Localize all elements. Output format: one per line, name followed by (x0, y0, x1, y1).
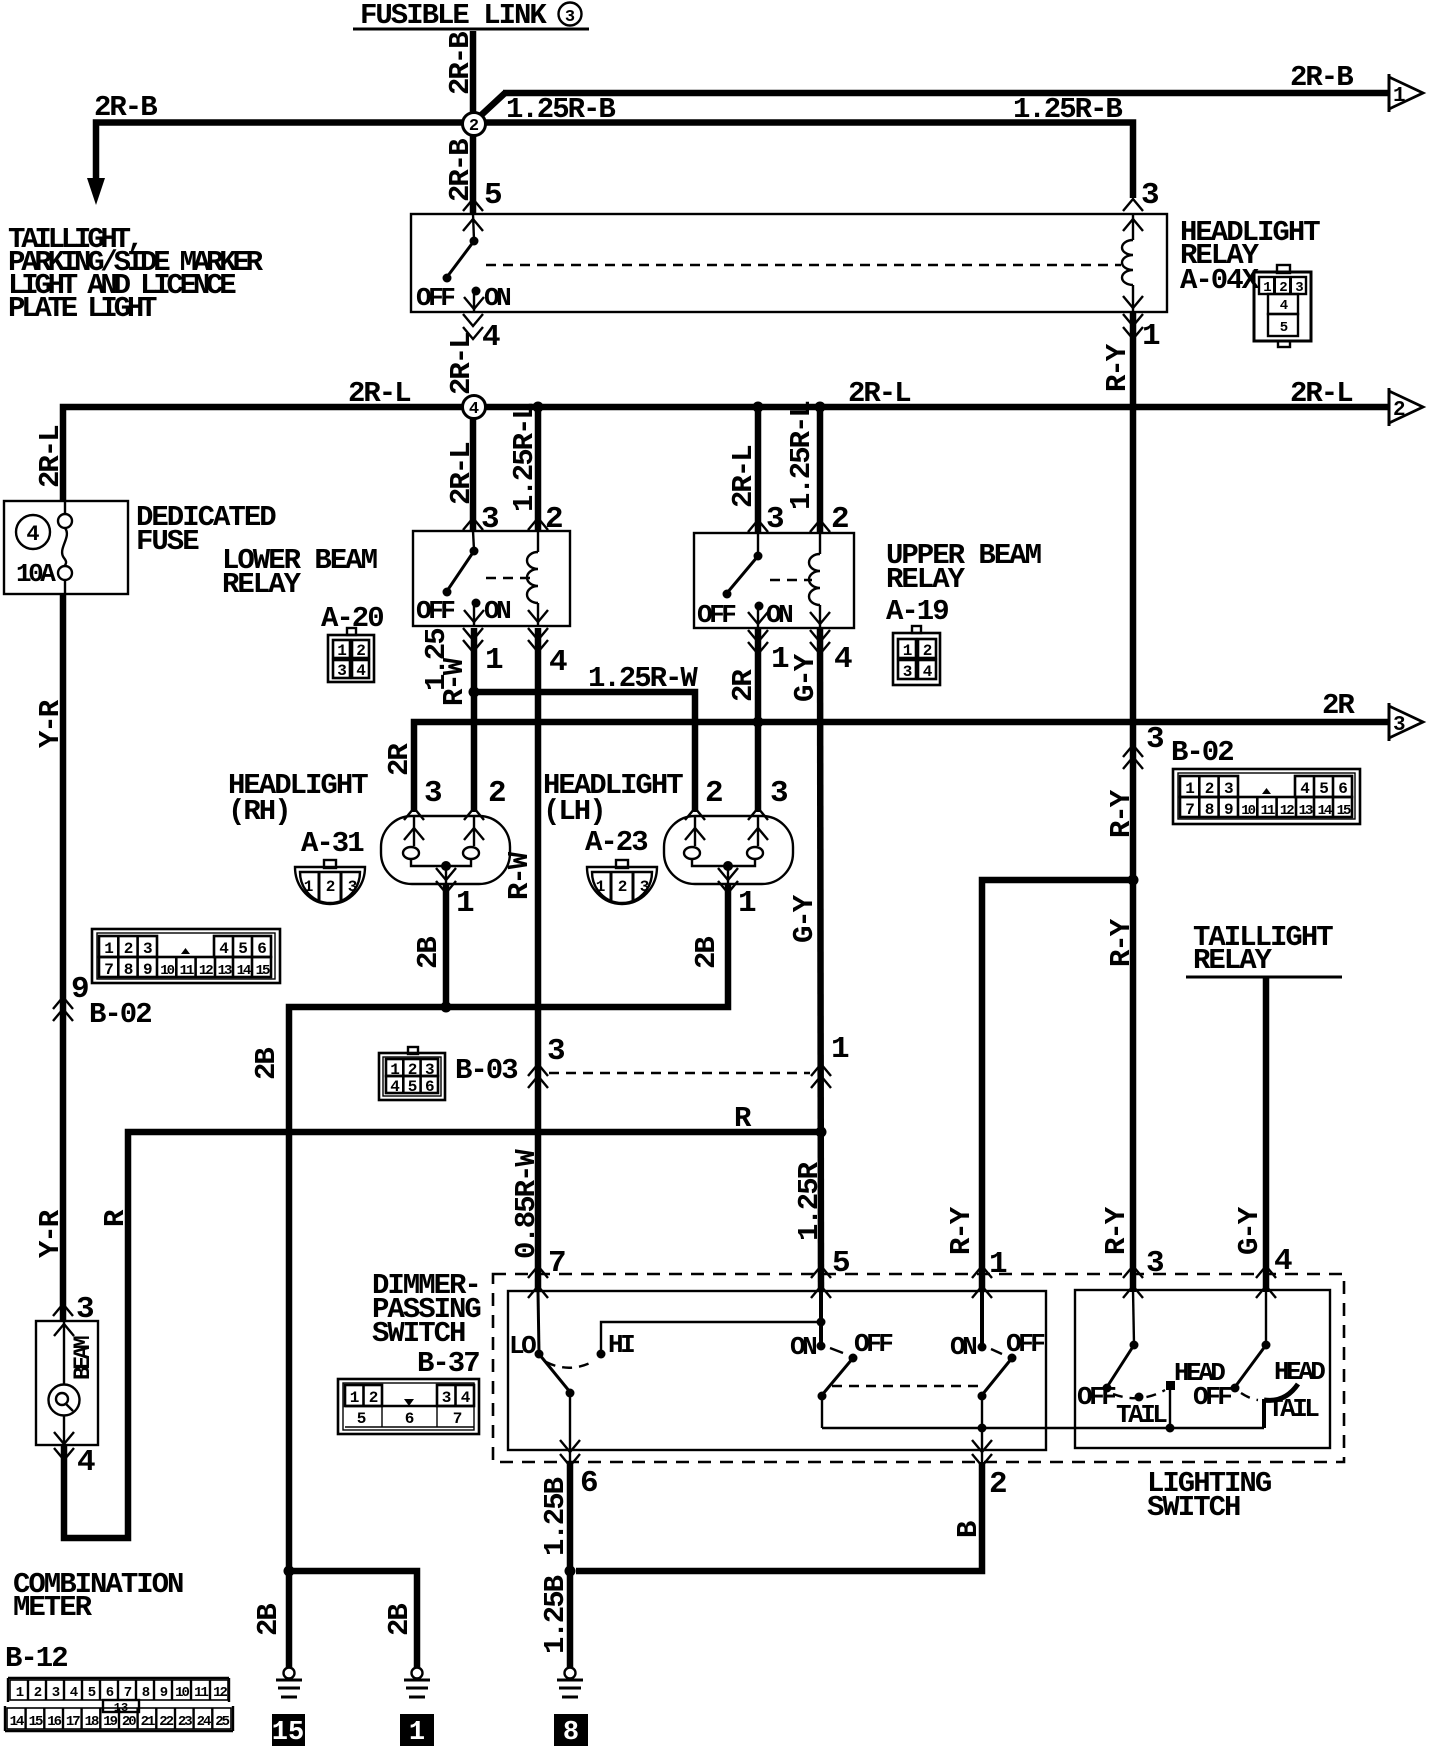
svg-text:10: 10 (160, 963, 174, 979)
svg-text:3: 3 (425, 1061, 434, 1079)
node pin 3 lighting switch (1123, 1246, 1164, 1298)
svg-text:1.25R-L: 1.25R-L (785, 402, 818, 510)
wire R-Y branch to dimmer pin 1 (945, 875, 1139, 1293)
svg-text:4: 4 (219, 940, 229, 958)
svg-text:3: 3 (766, 502, 784, 537)
svg-text:23: 23 (178, 1714, 192, 1730)
coil lower beam relay (527, 531, 548, 626)
node 2 junction (463, 113, 486, 137)
svg-text:15: 15 (256, 963, 270, 979)
svg-text:8: 8 (124, 961, 133, 979)
svg-text:5: 5 (408, 1078, 417, 1096)
svg-text:1.25R-B: 1.25R-B (1013, 93, 1122, 126)
svg-text:R: R (99, 1209, 132, 1227)
svg-text:OFF: OFF (1077, 1382, 1116, 1412)
svg-text:4: 4 (26, 522, 39, 547)
svg-text:2R-B: 2R-B (94, 91, 157, 124)
svg-text:2B: 2B (250, 1048, 283, 1080)
ground symbol 1 (400, 1668, 434, 1749)
svg-text:3: 3 (337, 662, 346, 680)
svg-text:R-Y: R-Y (1105, 918, 1138, 967)
svg-text:14: 14 (10, 1714, 24, 1730)
svg-text:2R-L: 2R-L (848, 377, 910, 410)
svg-text:R-W: R-W (503, 851, 536, 900)
svg-text:B-12: B-12 (5, 1642, 67, 1675)
switch box dashed outer (493, 1274, 1344, 1462)
svg-text:1: 1 (738, 886, 756, 921)
svg-text:4: 4 (469, 400, 479, 419)
svg-text:3: 3 (640, 878, 649, 896)
ground symbol 8 (554, 1668, 588, 1749)
svg-text:3: 3 (547, 1034, 565, 1069)
node B-03 inline connector pin 3 (528, 1034, 565, 1088)
svg-text:2: 2 (408, 1061, 417, 1079)
svg-text:3: 3 (143, 940, 152, 958)
node FUSIBLE LINK label (353, 0, 589, 32)
node pin 1 headlight relay (1123, 314, 1160, 354)
svg-text:7: 7 (104, 961, 113, 979)
node COMBINATION METER label (5, 1568, 183, 1675)
wire 2R-B fusible link to node 2 (444, 31, 477, 113)
svg-text:R-Y: R-Y (1101, 343, 1134, 392)
svg-text:HEAD: HEAD (1274, 1357, 1325, 1387)
svg-text:4: 4 (356, 662, 366, 680)
svg-text:9: 9 (1224, 801, 1233, 819)
switch main ON-OFF (950, 1291, 1045, 1428)
svg-text:2: 2 (356, 642, 365, 660)
svg-text:B: B (952, 1521, 985, 1538)
svg-text:SWITCH: SWITCH (372, 1317, 465, 1350)
node DIMMER-PASSING SWITCH label (372, 1269, 480, 1380)
svg-text:5: 5 (832, 1246, 849, 1281)
svg-text:12: 12 (213, 1685, 227, 1701)
svg-text:11: 11 (1261, 803, 1275, 819)
svg-text:4: 4 (461, 1389, 471, 1407)
svg-text:1.25R-W: 1.25R-W (588, 662, 698, 695)
svg-text:2R-L: 2R-L (34, 426, 67, 488)
connector icon B-02 right (1173, 769, 1360, 824)
wire R-W relay pin4 down through B-03 to dimmer pin 7 (503, 628, 543, 1292)
svg-text:PLATE LIGHT: PLATE LIGHT (8, 292, 157, 325)
wire 2R upper relay pin 1 to arrow 3 (383, 669, 1392, 812)
svg-text:4: 4 (77, 1445, 95, 1480)
svg-text:17: 17 (66, 1714, 80, 1730)
svg-text:7: 7 (1185, 801, 1194, 819)
svg-text:A-31: A-31 (301, 827, 364, 860)
svg-text:1: 1 (1142, 319, 1160, 354)
svg-text:8: 8 (563, 1718, 579, 1748)
switch dimmer LO-HI (509, 1291, 821, 1464)
node pin 3 lower relay (463, 502, 499, 537)
node UPPER BEAM RELAY label (886, 539, 1041, 628)
svg-text:ON: ON (484, 596, 510, 626)
node pin 2 lower relay (528, 502, 562, 537)
svg-text:6: 6 (405, 1410, 414, 1428)
svg-text:20: 20 (122, 1714, 136, 1730)
svg-text:13: 13 (1299, 803, 1313, 819)
svg-text:2R-B: 2R-B (444, 32, 477, 95)
wire G-Y taillight relay to lighting switch pin 4 (1233, 977, 1266, 1292)
svg-text:A-20: A-20 (321, 602, 383, 635)
svg-text:15: 15 (1337, 803, 1351, 819)
node pin 2 RH headlight (464, 776, 505, 840)
node pin 6 dimmer (560, 1440, 597, 1501)
svg-text:24: 24 (197, 1714, 211, 1730)
svg-text:1: 1 (1185, 780, 1194, 798)
svg-text:B-03: B-03 (455, 1054, 517, 1087)
svg-text:METER: METER (13, 1591, 93, 1624)
svg-text:4: 4 (923, 663, 933, 681)
wire 2B RH headlight to ground (412, 884, 452, 1013)
node pin 1 upper relay (748, 630, 789, 677)
svg-text:13: 13 (218, 963, 232, 979)
connector icon A-23 (587, 860, 657, 904)
svg-text:1: 1 (337, 642, 346, 660)
node pin 3 LH headlight (748, 776, 788, 840)
svg-text:FUSIBLE LINK: FUSIBLE LINK (360, 0, 547, 32)
node pin 3 RH headlight (404, 776, 442, 840)
svg-text:1.25R-L: 1.25R-L (508, 404, 541, 512)
wire common output dimmer to lighting switch (822, 1399, 1264, 1464)
svg-text:1: 1 (485, 643, 503, 678)
svg-text:B-37: B-37 (417, 1347, 479, 1380)
svg-text:ON: ON (766, 600, 792, 630)
wire 2R-L node 4 to arrow 2 (485, 377, 1392, 410)
node pin 4 lower relay (528, 628, 567, 680)
svg-text:5: 5 (357, 1410, 366, 1428)
svg-text:4: 4 (1300, 780, 1310, 798)
svg-text:B-02: B-02 (1171, 736, 1233, 769)
wire R-W lower relay pin1 to RH headlight pin 2 (469, 628, 480, 812)
svg-text:ON: ON (950, 1332, 976, 1362)
svg-text:19: 19 (103, 1714, 117, 1730)
svg-text:1: 1 (831, 1032, 849, 1067)
svg-text:21: 21 (141, 1714, 155, 1730)
svg-text:2R-L: 2R-L (727, 446, 760, 508)
svg-text:7: 7 (453, 1410, 462, 1428)
node arrow 3 (1389, 703, 1423, 741)
svg-text:A-04X: A-04X (1180, 264, 1260, 297)
svg-text:OFF: OFF (1193, 1382, 1232, 1412)
svg-text:2R-B: 2R-B (1290, 61, 1353, 94)
connector icon B-02 left (92, 929, 280, 983)
svg-text:3: 3 (424, 776, 442, 811)
svg-text:(RH): (RH) (228, 795, 290, 828)
svg-text:1: 1 (456, 886, 474, 921)
switch lighting pole 2 (1193, 1290, 1325, 1424)
component DEDICATED FUSE (4, 501, 276, 594)
svg-text:2: 2 (705, 776, 722, 811)
wire 2B LH headlight to ground junction (250, 884, 728, 1571)
connector icon A-20 (328, 628, 374, 682)
svg-text:4: 4 (834, 642, 852, 677)
svg-text:2: 2 (369, 1389, 378, 1407)
svg-text:R-Y: R-Y (945, 1206, 978, 1255)
svg-text:Y-R: Y-R (34, 1209, 67, 1258)
node 4 junction (463, 396, 486, 420)
node pin 4 upper relay (810, 630, 852, 677)
svg-text:25: 25 (215, 1714, 229, 1730)
svg-text:15: 15 (29, 1714, 43, 1730)
svg-text:1: 1 (409, 1718, 425, 1748)
svg-text:1: 1 (350, 1389, 359, 1407)
svg-text:3: 3 (770, 776, 788, 811)
svg-text:FUSE: FUSE (136, 525, 199, 558)
svg-text:22: 22 (159, 1714, 173, 1730)
svg-text:2: 2 (326, 878, 335, 896)
wire 2R upper relay pin1 down to LH pin 3 (755, 628, 762, 812)
svg-text:3: 3 (1146, 1246, 1164, 1281)
svg-text:0.85R-W: 0.85R-W (510, 1149, 543, 1259)
svg-text:5: 5 (484, 178, 501, 213)
svg-text:G-Y: G-Y (788, 894, 821, 943)
svg-text:1: 1 (1393, 85, 1406, 108)
connector icon A-19 (893, 626, 940, 685)
svg-text:2: 2 (124, 940, 133, 958)
wire 1.25R-L to upper beam relay pin 2 (785, 402, 826, 533)
relay box lower beam relay (413, 531, 570, 626)
wire 1.25R-L to lower beam relay pin 2 (508, 402, 544, 531)
switch dimmer passing ON-OFF (790, 1291, 893, 1428)
svg-text:2R-L: 2R-L (348, 377, 410, 410)
connector icon B-12 (5, 1678, 233, 1731)
node pin 3 beam indicator (53, 1292, 94, 1336)
node LOWER BEAM RELAY label (222, 544, 383, 635)
svg-text:(LH): (LH) (543, 795, 605, 828)
svg-text:SWITCH: SWITCH (1147, 1491, 1240, 1524)
svg-text:15: 15 (272, 1718, 304, 1748)
svg-text:A-19: A-19 (886, 595, 948, 628)
svg-text:11: 11 (194, 1685, 208, 1701)
ground symbol 15 (272, 1668, 305, 1749)
svg-text:10: 10 (175, 1685, 189, 1701)
svg-text:8: 8 (1205, 801, 1214, 819)
svg-text:4: 4 (1274, 1244, 1292, 1279)
wire dashed B-03 link (549, 1072, 810, 1074)
svg-text:2: 2 (618, 878, 627, 896)
svg-text:HI: HI (608, 1330, 634, 1360)
node arrow 1 (1389, 74, 1423, 112)
svg-text:7: 7 (548, 1246, 565, 1281)
svg-text:5: 5 (238, 940, 247, 958)
wire 2R-L node 4 to dedicated fuse (34, 377, 463, 501)
wire 2R-B node 2 to arrow 1 (477, 61, 1392, 126)
node pin 5 headlight relay (463, 178, 501, 231)
wire 1.25R-W label columns (420, 629, 471, 706)
svg-text:2: 2 (1393, 399, 1406, 422)
svg-text:2B: 2B (383, 1604, 416, 1636)
svg-text:10: 10 (1241, 803, 1255, 819)
wire dashed gang link dimmer (832, 1385, 978, 1387)
svg-text:OFF: OFF (416, 283, 455, 313)
svg-text:6: 6 (425, 1078, 434, 1096)
svg-text:4: 4 (549, 645, 567, 680)
svg-text:2R-L: 2R-L (1290, 377, 1352, 410)
svg-text:3: 3 (903, 663, 912, 681)
svg-text:R: R (734, 1102, 752, 1135)
svg-text:1.25B: 1.25B (539, 1575, 572, 1654)
svg-text:2R-L: 2R-L (445, 443, 478, 505)
switch headlight relay (416, 214, 510, 313)
svg-text:3: 3 (348, 878, 357, 896)
svg-text:5: 5 (1319, 780, 1328, 798)
svg-text:1: 1 (903, 642, 912, 660)
switch box dimmer inner (508, 1291, 1046, 1450)
svg-text:1: 1 (304, 878, 313, 896)
relay box upper beam relay (694, 533, 854, 628)
node HEADLIGHT RELAY A-04X label (1180, 216, 1320, 297)
node pin 2 dimmer (972, 1440, 1006, 1502)
svg-text:16: 16 (47, 1714, 61, 1730)
svg-text:OFF: OFF (416, 596, 455, 626)
svg-text:10A: 10A (16, 559, 56, 589)
node pin 3 upper relay (748, 502, 784, 537)
node TAILLIGHT RELAY label (1186, 921, 1342, 977)
svg-text:ON: ON (484, 283, 510, 313)
svg-text:A-23: A-23 (585, 826, 647, 859)
svg-text:18: 18 (85, 1714, 99, 1730)
svg-text:1: 1 (104, 940, 113, 958)
switch lower beam relay (416, 531, 530, 626)
svg-text:1.25R: 1.25R (793, 1161, 826, 1241)
connector icon B-37 (338, 1379, 479, 1434)
wire Y-R fuse down to combination meter (34, 594, 67, 1321)
svg-text:2: 2 (469, 117, 479, 136)
svg-text:12: 12 (199, 963, 213, 979)
node pin 3 headlight relay (1123, 178, 1159, 231)
node pin 1 dimmer (972, 1247, 1007, 1298)
svg-text:3: 3 (1224, 780, 1233, 798)
lamp RH headlight bulb (381, 816, 510, 893)
svg-text:R-Y: R-Y (1105, 789, 1138, 838)
svg-text:2R: 2R (1322, 689, 1355, 722)
wire G-Y upper relay pin4 down through B-03 to dimmer pin 5 (788, 628, 826, 1292)
wire R from combination meter to 1.25R junction (64, 1102, 827, 1538)
coil headlight relay (1122, 214, 1143, 312)
svg-text:3: 3 (1146, 722, 1164, 757)
node HEADLIGHT (LH) label (543, 769, 683, 859)
svg-text:1.25B: 1.25B (539, 1477, 572, 1556)
svg-text:6: 6 (1338, 780, 1347, 798)
connector icon A-31 (295, 860, 365, 904)
wire 2B ground branch (252, 1566, 417, 1668)
wire R-Y relay pin 1 down to lighting switch pin 3 (1100, 312, 1138, 1292)
svg-text:2R: 2R (383, 743, 416, 776)
wire 1.25B dimmer pin 6 to ground (539, 1462, 576, 1667)
svg-text:1: 1 (596, 878, 605, 896)
switch upper beam relay (697, 533, 812, 630)
svg-text:2B: 2B (252, 1604, 285, 1636)
svg-text:6: 6 (257, 940, 266, 958)
svg-text:9: 9 (71, 972, 88, 1007)
wire 2R-B node 2 to relay pin 5 (444, 136, 477, 214)
wire 2R-B node 2 to taillight arrow (87, 91, 462, 205)
node TAILLIGHT text block (8, 223, 264, 325)
wire 1.25R-B node 2 to headlight relay pin 3 (486, 93, 1133, 198)
svg-text:RELAY: RELAY (886, 563, 966, 596)
svg-text:RELAY: RELAY (222, 568, 302, 601)
lamp LH headlight bulb (664, 816, 793, 893)
svg-text:R-W: R-W (438, 657, 471, 706)
svg-text:LO: LO (509, 1331, 536, 1361)
svg-text:TAIL: TAIL (1268, 1394, 1319, 1424)
svg-text:6: 6 (580, 1466, 597, 1501)
svg-text:12: 12 (1280, 803, 1294, 819)
node B-02 pin 9 inline connector (53, 972, 151, 1031)
svg-text:OFF: OFF (697, 600, 736, 630)
node pin 7 dimmer (528, 1246, 565, 1298)
svg-text:11: 11 (180, 963, 194, 979)
svg-text:TAIL: TAIL (1116, 1400, 1167, 1430)
node HEADLIGHT (RH) label (228, 769, 368, 860)
relay box headlight relay (411, 214, 1167, 312)
coil upper beam relay (809, 533, 830, 628)
svg-text:14: 14 (1318, 803, 1332, 819)
node pin 4 headlight relay (463, 314, 500, 355)
wire 2R-L down to lower beam relay pin 3 (445, 333, 478, 530)
svg-text:2: 2 (989, 1467, 1006, 1502)
svg-text:2B: 2B (412, 937, 445, 969)
svg-text:3: 3 (1393, 714, 1406, 737)
node pin 2 LH headlight (685, 776, 722, 840)
svg-text:OFF: OFF (854, 1329, 893, 1359)
svg-text:4: 4 (390, 1078, 400, 1096)
svg-text:ON: ON (790, 1332, 816, 1362)
node pin 2 upper relay (810, 502, 848, 537)
svg-text:2: 2 (488, 776, 505, 811)
svg-text:2R-B: 2R-B (444, 139, 477, 202)
node pin 5 dimmer (811, 1246, 849, 1298)
svg-text:2: 2 (1205, 780, 1214, 798)
wire 1.25R-W to LH headlight pin 2 (474, 662, 698, 812)
svg-text:3: 3 (1141, 178, 1159, 213)
svg-text:2: 2 (831, 502, 848, 537)
svg-text:1: 1 (771, 642, 789, 677)
svg-text:2B: 2B (690, 937, 723, 969)
svg-text:BEAM: BEAM (70, 1336, 96, 1380)
svg-text:3: 3 (565, 8, 575, 27)
connector icon A-04X (1254, 265, 1311, 347)
svg-text:G-Y: G-Y (1233, 1206, 1266, 1255)
node pin 4 lighting switch (1256, 1244, 1292, 1298)
svg-text:2: 2 (923, 642, 932, 660)
node pin 4 beam indicator (54, 1432, 95, 1480)
node LIGHTING SWITCH label (1147, 1467, 1271, 1524)
svg-text:2R-L: 2R-L (445, 333, 478, 395)
svg-text:14: 14 (237, 963, 251, 979)
node pin 1 lower relay (463, 628, 503, 678)
svg-text:G-Y: G-Y (789, 653, 822, 702)
node arrow 2 (1389, 388, 1423, 426)
node B-03 inline connector pin 1 (811, 1032, 849, 1088)
svg-text:3: 3 (442, 1389, 451, 1407)
node B-02 pin 3 inline connector (1123, 722, 1233, 769)
connector icon B-03 (379, 1047, 445, 1100)
wire 2R-L to upper beam relay pin 3 (727, 402, 764, 533)
svg-text:B-02: B-02 (89, 998, 151, 1031)
switch lighting pole 1 (1077, 1290, 1225, 1430)
svg-text:Y-R: Y-R (34, 699, 67, 748)
lamp BEAM indicator box (36, 1321, 98, 1445)
switch box lighting inner (1075, 1290, 1330, 1448)
svg-text:4: 4 (482, 320, 500, 355)
svg-text:RELAY: RELAY (1193, 944, 1273, 977)
wire B dimmer pin 2 to ground junction (576, 1462, 985, 1571)
svg-text:R-Y: R-Y (1100, 1206, 1133, 1255)
svg-text:1: 1 (390, 1061, 399, 1079)
svg-text:9: 9 (143, 961, 152, 979)
wire dashed relay link (486, 264, 1121, 266)
